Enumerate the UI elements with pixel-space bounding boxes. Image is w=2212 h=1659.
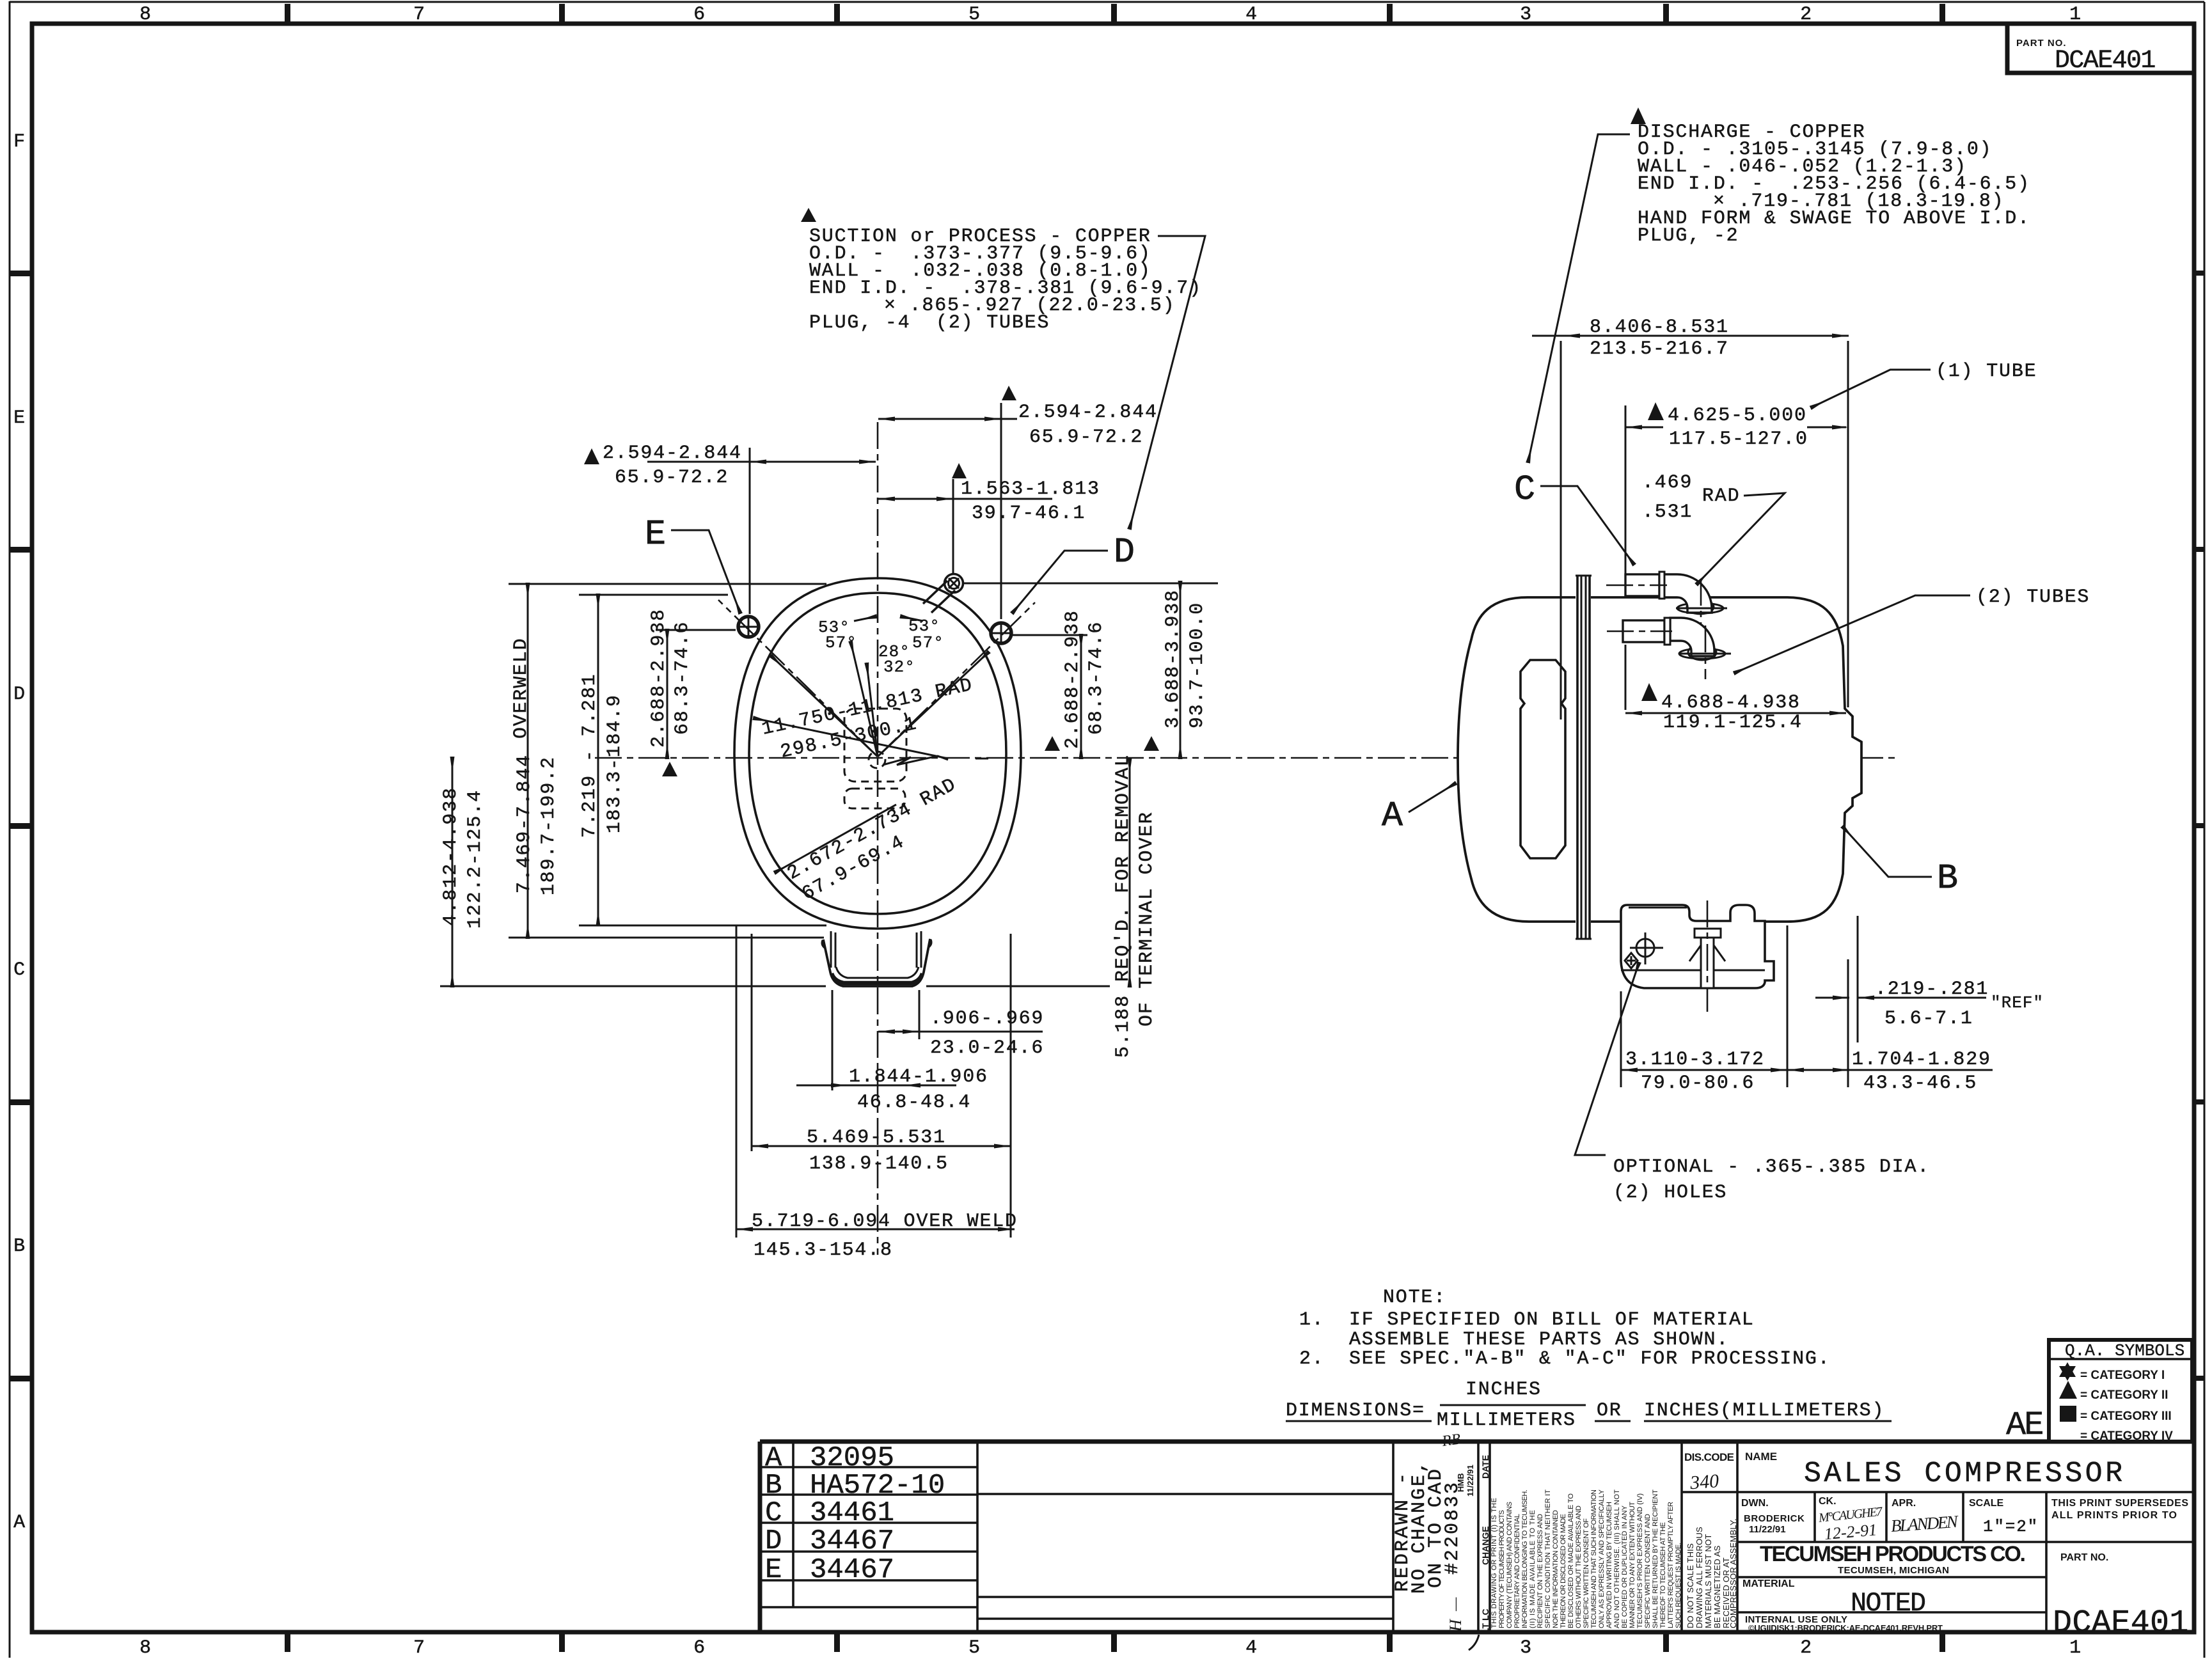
svg-text:COMPANY (TECUMSEH) AND CONTAIN: COMPANY (TECUMSEH) AND CONTAINS xyxy=(1506,1502,1513,1628)
svg-text:.906-.969: .906-.969 xyxy=(930,1008,1044,1030)
dim 2.688 right vertical xyxy=(1045,609,1107,758)
svg-text:5.469-5.531: 5.469-5.531 xyxy=(807,1127,946,1149)
dim 5.469 xyxy=(752,1127,1011,1175)
centerline horizontal (through both views) xyxy=(595,757,1895,759)
svg-text:ONLY AS EXPRESSLY AND SPECIFIC: ONLY AS EXPRESSLY AND SPECIFICALLY xyxy=(1598,1489,1606,1628)
svg-text:—: — xyxy=(1447,1597,1464,1612)
svg-text:79.0-80.6: 79.0-80.6 xyxy=(1641,1073,1755,1094)
svg-text:OF TERMINAL COVER: OF TERMINAL COVER xyxy=(1136,811,1158,1026)
svg-text:68.3-74.6: 68.3-74.6 xyxy=(1086,621,1107,735)
svg-text:F: F xyxy=(13,131,26,153)
svg-text:1"=2": 1"=2" xyxy=(1983,1517,2039,1536)
svg-text:.531: .531 xyxy=(1642,501,1693,523)
svg-text:119.1-125.4: 119.1-125.4 xyxy=(1663,712,1803,734)
svg-text:= CATEGORY I: = CATEGORY I xyxy=(2080,1369,2165,1382)
part no box top right xyxy=(2007,24,2194,75)
.469 / .531 RAD xyxy=(1642,472,1785,584)
svg-text:8.406-8.531: 8.406-8.531 xyxy=(1590,317,1729,338)
svg-text:340: 340 xyxy=(1689,1470,1719,1493)
angled centerlines through pins xyxy=(718,600,878,757)
svg-text:2: 2 xyxy=(1800,4,1813,26)
svg-text:E: E xyxy=(765,1554,782,1586)
svg-text:2.594-2.844: 2.594-2.844 xyxy=(1018,402,1158,423)
svg-text:DRAWING ALL FERROUS: DRAWING ALL FERROUS xyxy=(1695,1527,1704,1628)
svg-text:C: C xyxy=(13,959,26,981)
svg-text:OR: OR xyxy=(1597,1400,1622,1422)
mounting bracket xyxy=(1621,900,1774,1012)
svg-text:AND NOT OTHERWISE. (III) SHALL: AND NOT OTHERWISE. (III) SHALL NOT xyxy=(1613,1490,1621,1628)
svg-text:(2) TUBES: (2) TUBES xyxy=(1976,586,2090,608)
dim 5.188 req'd vertical xyxy=(1112,754,1158,1058)
zone numbers bottom xyxy=(139,1637,2082,1659)
svg-text:SPECIFIC CONDITION THAT NEITHE: SPECIFIC CONDITION THAT NEITHER IT xyxy=(1544,1490,1552,1628)
star cat I xyxy=(2059,1362,2076,1377)
svg-text:DCAE401: DCAE401 xyxy=(2055,47,2155,75)
svg-text:OPTIONAL - .365-.385 DIA.: OPTIONAL - .365-.385 DIA. xyxy=(1613,1156,1930,1178)
dwn/ck/apr/scale row xyxy=(1737,1541,2194,1543)
zone ticks left/right xyxy=(10,271,2204,1381)
compressor body outline xyxy=(1458,597,1861,922)
svg-text:57°: 57° xyxy=(912,633,944,652)
svg-text:THEREON OR DISCLOSED OR MADE: THEREON OR DISCLOSED OR MADE xyxy=(1560,1514,1567,1628)
dim 5.719 over weld xyxy=(736,1211,1018,1261)
weld band xyxy=(1576,576,1592,939)
suction stub on oval top xyxy=(923,574,963,613)
svg-text:189.7-199.2: 189.7-199.2 xyxy=(538,756,560,895)
svg-text:4.812-4.938: 4.812-4.938 xyxy=(440,787,462,926)
svg-text:INCHES: INCHES xyxy=(1465,1379,1542,1401)
svg-text:MILLIMETERS: MILLIMETERS xyxy=(1437,1410,1576,1431)
dim .219 REF xyxy=(1815,916,2044,1087)
svg-text:©UGIIDISK1:BRODERICK:AE-DCAE40: ©UGIIDISK1:BRODERICK:AE-DCAE401.REVH.PRT xyxy=(1748,1623,1943,1633)
svg-text:34461: 34461 xyxy=(810,1497,894,1529)
triangle cat II xyxy=(2059,1381,2077,1399)
svg-text:DCAE401: DCAE401 xyxy=(2053,1605,2189,1642)
svg-text:D: D xyxy=(1114,532,1135,572)
svg-text:4: 4 xyxy=(1245,4,1258,26)
angle reference lines xyxy=(771,656,878,757)
svg-text:HMB: HMB xyxy=(1456,1473,1465,1492)
revision table xyxy=(792,1442,794,1607)
svg-text:4: 4 xyxy=(1245,1637,1258,1659)
svg-text:#220833: #220833 xyxy=(1442,1481,1464,1575)
svg-text:2.: 2. xyxy=(1299,1348,1325,1370)
svg-text:34467: 34467 xyxy=(810,1554,894,1586)
svg-text:NAME: NAME xyxy=(1745,1451,1777,1463)
svg-text:.219-.281: .219-.281 xyxy=(1875,979,1989,1000)
svg-text:NOR THE INFORMATION CONTAINED: NOR THE INFORMATION CONTAINED xyxy=(1552,1510,1560,1628)
svg-text:= CATEGORY IV: = CATEGORY IV xyxy=(2080,1429,2173,1443)
svg-text:(2) HOLES: (2) HOLES xyxy=(1613,1182,1727,1204)
dim 8.406 xyxy=(1532,317,1849,719)
svg-text:SPECIFIC WRITTEN CONSENT OF: SPECIFIC WRITTEN CONSENT OF xyxy=(1583,1518,1590,1628)
svg-text:DIMENSIONS=: DIMENSIONS= xyxy=(1286,1400,1425,1422)
svg-text:NOTE:: NOTE: xyxy=(1383,1287,1446,1309)
svg-text:.469: .469 xyxy=(1642,472,1693,494)
svg-text:IF SPECIFIED ON BILL OF MATERI: IF SPECIFIED ON BILL OF MATERIAL xyxy=(1349,1309,1755,1331)
svg-text:32°: 32° xyxy=(883,657,915,677)
zone ticks bottom xyxy=(285,1632,1945,1652)
radius dimension 2.672 xyxy=(775,805,896,872)
radius dimension 11.750 xyxy=(754,718,948,759)
dim 4.625 xyxy=(1625,402,1849,710)
svg-text:TECUMSEH AND THAT SUCH INFORMA: TECUMSEH AND THAT SUCH INFORMATION xyxy=(1590,1490,1598,1628)
svg-text:5.188 REQ'D. FOR REMOVAL: 5.188 REQ'D. FOR REMOVAL xyxy=(1112,754,1134,1058)
bottom vertical extension lines xyxy=(736,926,738,1238)
svg-text:2.688-2.938: 2.688-2.938 xyxy=(648,608,670,748)
svg-text:8: 8 xyxy=(139,4,152,26)
svg-text:TECUMSEH PRODUCTS CO.: TECUMSEH PRODUCTS CO. xyxy=(1760,1542,2026,1566)
svg-text:PROPRIETARY AND CONFIDENTIAL: PROPRIETARY AND CONFIDENTIAL xyxy=(1513,1514,1521,1628)
svg-text:43.3-46.5: 43.3-46.5 xyxy=(1863,1073,1977,1094)
pin D xyxy=(991,623,1011,643)
svg-text:RB.: RB. xyxy=(1441,1430,1466,1450)
dim OVERWELD vertical xyxy=(510,584,532,938)
svg-text:DO NOT SCALE THIS: DO NOT SCALE THIS xyxy=(1686,1543,1695,1628)
svg-text:APPROVED IN WRITING BY TECUMSE: APPROVED IN WRITING BY TECUMSEH xyxy=(1606,1502,1613,1628)
svg-text:SHALL BE RETURNED BY THE RECIP: SHALL BE RETURNED BY THE RECIPIENT xyxy=(1652,1490,1659,1628)
svg-text:B: B xyxy=(1937,858,1958,899)
svg-text:Q.A. SYMBOLS: Q.A. SYMBOLS xyxy=(2065,1341,2184,1360)
svg-text:8: 8 xyxy=(139,1637,152,1659)
svg-text:AE: AE xyxy=(2006,1406,2042,1444)
svg-text:7.469-7.844: 7.469-7.844 xyxy=(514,754,535,893)
svg-text:D: D xyxy=(13,684,26,705)
redrawn rotated notes xyxy=(1392,1459,1464,1594)
compressor shell outer oval xyxy=(734,578,1021,929)
svg-text:183.3-184.9: 183.3-184.9 xyxy=(604,694,626,833)
OPTIONAL holes note xyxy=(1575,963,1930,1204)
compressor shell inner oval xyxy=(749,593,1006,914)
hidden internal parts (dashed) xyxy=(844,709,906,782)
svg-text:145.3-154.8: 145.3-154.8 xyxy=(754,1239,893,1261)
svg-text:5.6-7.1: 5.6-7.1 xyxy=(1884,1008,1973,1030)
svg-text:= CATEGORY II: = CATEGORY II xyxy=(2080,1388,2168,1402)
dim 2.594 right xyxy=(878,386,1158,619)
svg-text:C: C xyxy=(765,1497,782,1529)
svg-text:RECIPIENT ON THE EXPRESS AND: RECIPIENT ON THE EXPRESS AND xyxy=(1537,1514,1544,1628)
svg-text:93.7-100.0: 93.7-100.0 xyxy=(1187,602,1208,728)
dim 2.688 left vertical xyxy=(648,608,693,776)
svg-text:E: E xyxy=(645,514,666,554)
svg-text:MATERIAL: MATERIAL xyxy=(1742,1578,1795,1589)
zigzag pointer at center xyxy=(883,756,948,765)
dim 1.563 xyxy=(878,463,1100,574)
svg-text:MATERIALS MUST NOT: MATERIALS MUST NOT xyxy=(1703,1534,1713,1628)
discharge tube (upper) entry flange xyxy=(1606,572,1727,624)
svg-text:65.9-72.2: 65.9-72.2 xyxy=(615,467,729,489)
zone ticks top xyxy=(285,4,1945,24)
svg-text:11/22/91: 11/22/91 xyxy=(1465,1465,1475,1497)
DISCHARGE note block xyxy=(1631,107,1646,124)
discharge leader to C xyxy=(1528,134,1630,462)
svg-text:LATTER'S REQUEST PROMPTLY AFTE: LATTER'S REQUEST PROMPTLY AFTER xyxy=(1667,1502,1675,1628)
svg-text:7: 7 xyxy=(413,4,426,26)
svg-text:1.: 1. xyxy=(1299,1309,1325,1331)
dim 4.688 xyxy=(1625,683,1846,734)
svg-text:DIS.CODE: DIS.CODE xyxy=(1684,1451,1734,1463)
zone letters left xyxy=(13,131,26,1534)
svg-text:5: 5 xyxy=(968,1637,981,1659)
zone numbers top xyxy=(139,4,2082,26)
svg-text:11/22/91: 11/22/91 xyxy=(1749,1524,1786,1535)
svg-text:A: A xyxy=(13,1512,26,1534)
dim 3.688 vertical xyxy=(1144,582,1208,758)
dim 2.594 left xyxy=(584,443,876,614)
square cat III xyxy=(2060,1406,2076,1422)
svg-text:3: 3 xyxy=(1520,4,1533,26)
svg-text:TECUMSEH, MICHIGAN: TECUMSEH, MICHIGAN xyxy=(1838,1565,1949,1576)
left extension lines xyxy=(509,583,826,585)
svg-text:7: 7 xyxy=(413,1637,426,1659)
svg-text:7.219 - 7.281: 7.219 - 7.281 xyxy=(579,673,601,838)
svg-text:INFORMATION BELONGING TO TECUM: INFORMATION BELONGING TO TECUMSEH. xyxy=(1521,1490,1529,1628)
svg-text:OTHERS WITHOUT THE EXPRESS AND: OTHERS WITHOUT THE EXPRESS AND xyxy=(1575,1506,1583,1628)
svg-text:SPECIFIC WRITTEN CONSENT AND: SPECIFIC WRITTEN CONSENT AND xyxy=(1644,1514,1652,1628)
angle labels xyxy=(818,617,944,677)
svg-text:34467: 34467 xyxy=(810,1525,894,1557)
svg-text:DWN.: DWN. xyxy=(1741,1498,1769,1509)
title block outline xyxy=(760,1440,2194,1444)
svg-text:"REF": "REF" xyxy=(1991,993,2044,1012)
svg-text:A: A xyxy=(1382,796,1403,836)
svg-text:SALES COMPRESSOR: SALES COMPRESSOR xyxy=(1804,1458,2125,1490)
svg-text:5: 5 xyxy=(968,4,981,26)
svg-text:(II) IS MADE AVAILABLE TO THE: (II) IS MADE AVAILABLE TO THE xyxy=(1529,1510,1537,1628)
svg-text:2: 2 xyxy=(1800,1637,1813,1659)
svg-text:65.9-72.2: 65.9-72.2 xyxy=(1029,427,1143,448)
dim .906 xyxy=(878,1008,1044,1059)
svg-text:68.3-74.6: 68.3-74.6 xyxy=(672,621,693,735)
svg-text:PART NO.: PART NO. xyxy=(2060,1552,2108,1563)
svg-text:RAD: RAD xyxy=(1702,485,1740,507)
svg-text:46.8-48.4: 46.8-48.4 xyxy=(857,1092,971,1113)
svg-text:39.7-46.1: 39.7-46.1 xyxy=(972,503,1086,524)
svg-text:57°: 57° xyxy=(825,633,857,652)
svg-text:B: B xyxy=(13,1236,26,1257)
svg-text:THIS PRINT SUPERSEDES: THIS PRINT SUPERSEDES xyxy=(2051,1498,2188,1509)
svg-text:C: C xyxy=(1514,469,1535,510)
dim 1.844 xyxy=(796,1066,988,1113)
svg-text:6: 6 xyxy=(693,4,706,26)
terminal cover (bucket) xyxy=(822,931,931,986)
svg-text:6: 6 xyxy=(693,1637,706,1659)
svg-text:117.5-127.0: 117.5-127.0 xyxy=(1669,429,1808,450)
svg-text:3.110-3.172: 3.110-3.172 xyxy=(1625,1049,1765,1071)
legal text rotated columns xyxy=(1490,1489,1682,1628)
svg-text:ALL PRINTS PRIOR TO: ALL PRINTS PRIOR TO xyxy=(2051,1510,2177,1521)
svg-text:OVERWELD: OVERWELD xyxy=(510,638,532,739)
dim 4.812 vertical xyxy=(440,758,486,986)
svg-text:SEE SPEC."A-B" & "A-C" FOR PRO: SEE SPEC."A-B" & "A-C" FOR PROCESSING. xyxy=(1349,1348,1831,1370)
svg-text:NOTED: NOTED xyxy=(1851,1588,1925,1619)
svg-text:PLUG, -4 (2) TUBES: PLUG, -4 (2) TUBES xyxy=(809,312,1050,334)
svg-text:THEREOF TO TECUMSEH AT THE: THEREOF TO TECUMSEH AT THE xyxy=(1659,1522,1667,1628)
suction tube (lower) entry flange xyxy=(1607,618,1731,679)
dim 7.219 vertical xyxy=(579,595,626,925)
dim 3.110 xyxy=(1621,925,1787,1094)
pin E xyxy=(738,617,759,637)
svg-text:(1) TUBE: (1) TUBE xyxy=(1936,361,2037,382)
svg-text:1.844-1.906: 1.844-1.906 xyxy=(849,1066,988,1088)
svg-text:ASSEMBLE THESE PARTS AS SHOWN.: ASSEMBLE THESE PARTS AS SHOWN. xyxy=(1349,1329,1729,1351)
svg-text:5.719-6.094 OVER WELD: 5.719-6.094 OVER WELD xyxy=(752,1211,1018,1232)
SUCTION note block xyxy=(801,208,816,222)
svg-text:1.704-1.829: 1.704-1.829 xyxy=(1852,1049,1991,1071)
svg-text:MANNER OR TO ANY EXTENT WITHOU: MANNER OR TO ANY EXTENT WITHOUT xyxy=(1629,1502,1636,1628)
svg-text:H: H xyxy=(1446,1619,1465,1632)
motor sight capsule xyxy=(1521,660,1565,858)
svg-text:TECUMSEH'S PRIOR EXPRESS AND (: TECUMSEH'S PRIOR EXPRESS AND (IV) xyxy=(1636,1493,1644,1628)
svg-text:BE COPIED OR DUPLICATED IN ANY: BE COPIED OR DUPLICATED IN ANY xyxy=(1621,1505,1629,1628)
svg-text:E: E xyxy=(13,407,26,429)
middle blank region lines xyxy=(977,1493,1393,1495)
svg-text:= CATEGORY III: = CATEGORY III xyxy=(2080,1410,2172,1423)
svg-text:4.688-4.938: 4.688-4.938 xyxy=(1661,692,1801,714)
svg-text:PLUG, -2: PLUG, -2 xyxy=(1638,225,1739,247)
svg-text:BRODERICK: BRODERICK xyxy=(1744,1513,1805,1524)
svg-text:23.0-24.6: 23.0-24.6 xyxy=(930,1037,1044,1059)
svg-text:BE DISCLOSED OR MADE AVAILABLE: BE DISCLOSED OR MADE AVAILABLE TO xyxy=(1567,1493,1575,1628)
svg-text:CK.: CK. xyxy=(1819,1496,1837,1507)
svg-text:122.2-125.4: 122.2-125.4 xyxy=(464,789,486,929)
svg-text:PROPERTY OF TECUMSEH PRODUCTS: PROPERTY OF TECUMSEH PRODUCTS xyxy=(1498,1510,1506,1628)
do not scale column xyxy=(1686,1518,1738,1628)
svg-text:213.5-216.7: 213.5-216.7 xyxy=(1590,338,1729,360)
dim 1.704 xyxy=(1787,1049,1993,1094)
svg-text:3.688-3.938: 3.688-3.938 xyxy=(1162,589,1184,728)
svg-text:INCHES(MILLIMETERS): INCHES(MILLIMETERS) xyxy=(1644,1400,1884,1422)
svg-text:4.625-5.000: 4.625-5.000 xyxy=(1668,405,1807,427)
svg-text:2.688-2.938: 2.688-2.938 xyxy=(1062,609,1084,749)
svg-text:BE MAGNETIZED AS: BE MAGNETIZED AS xyxy=(1712,1545,1722,1628)
svg-text:SCALE: SCALE xyxy=(1969,1498,2004,1509)
svg-text:APR.: APR. xyxy=(1892,1498,1916,1509)
centerline vertical xyxy=(877,422,879,1255)
svg-text:1.563-1.813: 1.563-1.813 xyxy=(961,478,1100,500)
svg-text:D: D xyxy=(765,1525,782,1557)
svg-text:138.9-140.5: 138.9-140.5 xyxy=(809,1153,949,1175)
svg-text:THIS DRAWING OR PRINT (I) IS T: THIS DRAWING OR PRINT (I) IS THE xyxy=(1490,1498,1498,1628)
svg-text:3: 3 xyxy=(1520,1637,1533,1659)
